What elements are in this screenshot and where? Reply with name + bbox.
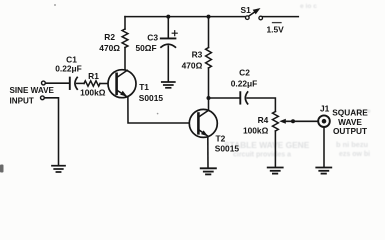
ground under R4 bbox=[268, 168, 283, 174]
svg-text:b ni bezu: b ni bezu bbox=[336, 140, 369, 149]
wire top rail right segment bbox=[262, 16, 298, 18]
svg-text:R4: R4 bbox=[258, 115, 269, 125]
svg-text:S0015: S0015 bbox=[139, 93, 164, 103]
node B: rail-R3 junction bbox=[207, 15, 211, 19]
SINE WAVE INPUT labels bbox=[10, 86, 55, 106]
svg-text:T1: T1 bbox=[139, 82, 149, 92]
wire node C to C2 bbox=[209, 97, 240, 99]
ground (input) bbox=[52, 166, 65, 172]
input terminal lower bbox=[41, 96, 45, 100]
ground under T2 bbox=[201, 168, 216, 174]
node A: rail-C3 junction bbox=[166, 15, 170, 19]
wire lower terminal to ground bbox=[44, 98, 58, 165]
C1 value labels bbox=[55, 54, 82, 73]
transistor T1 bbox=[108, 70, 136, 98]
wire R1 to T1 base bbox=[100, 83, 107, 85]
switch S1 bbox=[246, 8, 263, 20]
capacitor C3 bbox=[161, 17, 177, 82]
capacitor C1 bbox=[70, 77, 77, 89]
T1 labels bbox=[139, 82, 164, 103]
svg-text:100kΩ: 100kΩ bbox=[80, 88, 106, 98]
svg-text:J1: J1 bbox=[320, 104, 330, 114]
battery 1.5V label bbox=[267, 23, 285, 35]
svg-text:C2: C2 bbox=[239, 68, 250, 78]
wire top rail left segment bbox=[125, 16, 246, 18]
svg-text:SQUARE: SQUARE bbox=[332, 107, 368, 117]
transistor T2 bbox=[189, 109, 217, 137]
svg-text:R2: R2 bbox=[104, 32, 115, 42]
wire T2 collector bbox=[208, 98, 210, 110]
ground under J1 bbox=[316, 168, 331, 174]
svg-text:SINE WAVE: SINE WAVE bbox=[10, 86, 55, 95]
R2 value labels bbox=[99, 32, 120, 53]
svg-text:INPUT: INPUT bbox=[10, 97, 34, 106]
node D: wiper-J1 junction dot bbox=[291, 119, 295, 123]
wire T1 emitter down and right to T2 base bbox=[128, 98, 189, 124]
resistor R4 (potentiometer) bbox=[273, 112, 279, 167]
svg-text:S0015: S0015 bbox=[215, 144, 240, 154]
capacitor C2 bbox=[240, 92, 247, 104]
edge artifact left bbox=[0, 165, 4, 173]
svg-text:C3: C3 bbox=[147, 32, 158, 42]
svg-text:ezs ow bi: ezs ow bi bbox=[339, 151, 370, 158]
C3 value labels bbox=[135, 32, 158, 53]
T2 labels bbox=[215, 133, 240, 153]
S1 label bbox=[241, 5, 252, 15]
R4 value labels bbox=[243, 115, 269, 136]
svg-text:e io c: e io c bbox=[300, 3, 317, 10]
svg-text:50ΩF: 50ΩF bbox=[135, 43, 156, 53]
wire C1 to R1 bbox=[77, 82, 84, 84]
wire C2 to R4 top bbox=[247, 98, 275, 112]
input terminal upper bbox=[42, 81, 46, 85]
SQUARE WAVE OUTPUT labels bbox=[332, 107, 368, 136]
svg-text:R3: R3 bbox=[192, 50, 203, 60]
node C: R3/C2/T2-collector junction bbox=[207, 96, 211, 100]
svg-text:1.5V: 1.5V bbox=[267, 24, 285, 34]
svg-text:470Ω: 470Ω bbox=[182, 60, 203, 70]
resistor R3 bbox=[206, 17, 212, 98]
J1 label bbox=[320, 104, 330, 114]
R1 value labels bbox=[80, 71, 106, 98]
wire input to C1 bbox=[45, 82, 69, 84]
svg-text:0.22μF: 0.22μF bbox=[231, 79, 258, 89]
svg-text:circuit provides a: circuit provides a bbox=[233, 152, 291, 159]
wire T2 emitter to ground bbox=[207, 137, 209, 168]
R3 value labels bbox=[182, 50, 203, 71]
R4 wiper arrow bbox=[279, 119, 317, 124]
svg-text:0.22μF: 0.22μF bbox=[55, 64, 82, 74]
C2 value labels bbox=[231, 68, 258, 89]
svg-text:S1: S1 bbox=[241, 5, 252, 15]
svg-text:R1: R1 bbox=[88, 71, 99, 81]
resistor R2 bbox=[122, 17, 128, 70]
ground under C3 bbox=[162, 82, 175, 88]
resistor R1 bbox=[84, 81, 100, 86]
svg-text:OUTPUT: OUTPUT bbox=[333, 126, 367, 136]
bleed-through ghost text bottom right bbox=[224, 3, 371, 159]
svg-text:T2: T2 bbox=[216, 133, 226, 143]
connector J1 bbox=[318, 115, 330, 127]
wire J1 to ground bbox=[323, 127, 325, 166]
speck artifacts bbox=[54, 4, 56, 6]
svg-text:470Ω: 470Ω bbox=[99, 43, 120, 53]
svg-text:100kΩ: 100kΩ bbox=[243, 126, 269, 136]
